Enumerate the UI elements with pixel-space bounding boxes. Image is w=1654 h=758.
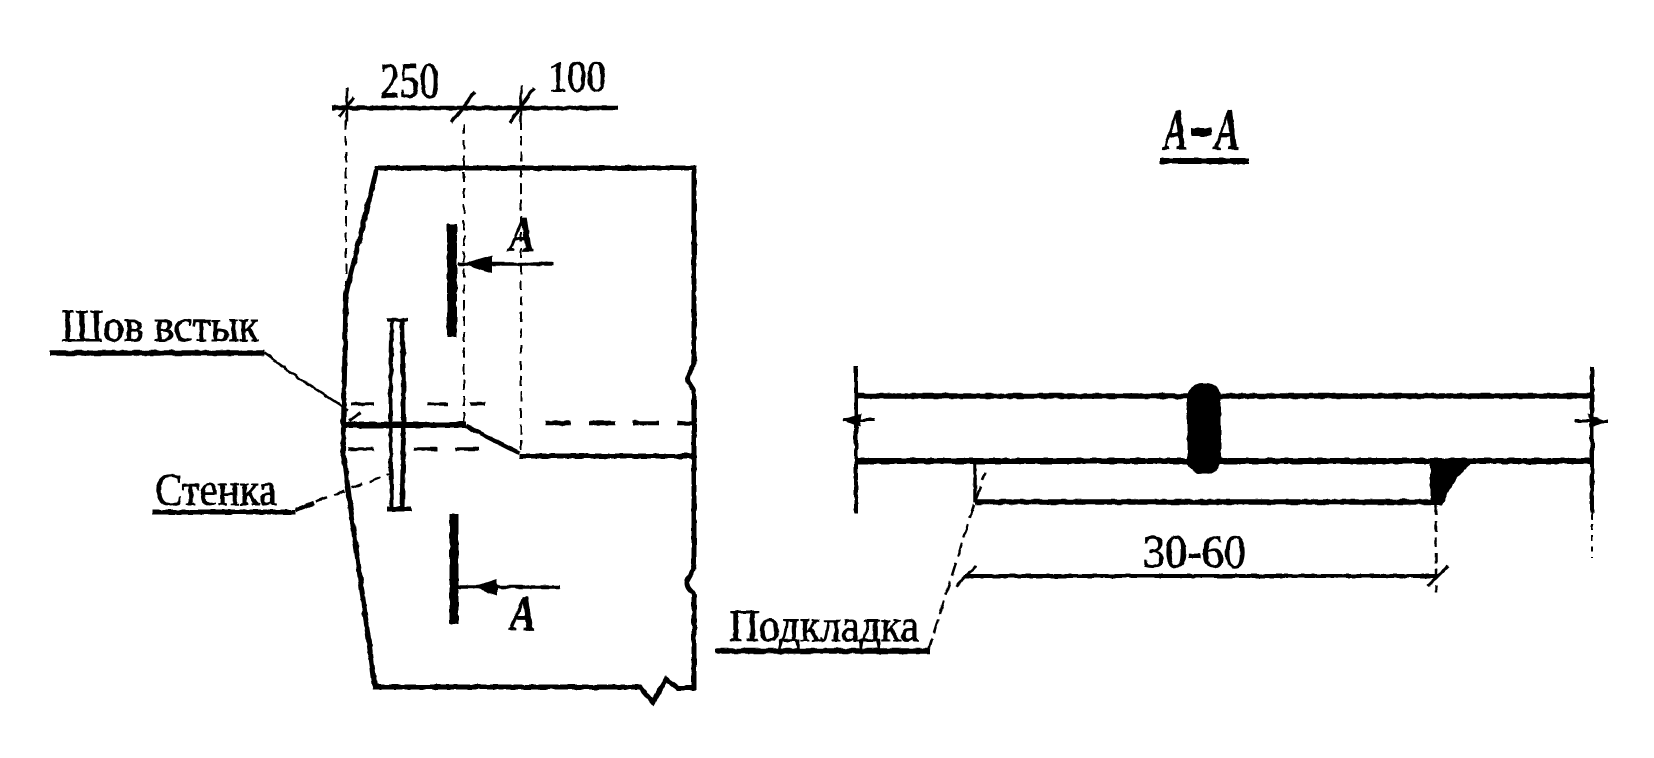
width arrow left (843, 419, 875, 422)
left end line (854, 366, 858, 513)
plate top line (858, 393, 1592, 399)
svg-text:Подкладка: Подкладка (729, 600, 919, 651)
dimension 30-60 (965, 574, 1438, 578)
backing plate bottom (975, 499, 1437, 505)
leader stenka (298, 474, 390, 508)
section cut bar bottom (450, 514, 459, 624)
section cut bar top (447, 224, 457, 337)
dim tick left (x=347) (346, 87, 349, 121)
extension line right of dim (1435, 505, 1438, 592)
section arrow bottom (457, 585, 560, 589)
extension dash line x=521 (520, 120, 522, 453)
section arrow top (458, 262, 554, 266)
width arrow right (1575, 420, 1608, 423)
svg-text:100: 100 (548, 52, 606, 101)
plate bottom line (858, 458, 1592, 464)
extension dash line x=346 (345, 120, 347, 330)
svg-text:30-60: 30-60 (1143, 526, 1246, 578)
fillet weld (black triangle) (1430, 459, 1479, 505)
svg-text:250: 250 (380, 52, 439, 108)
dim tick right (x=522) (520, 86, 523, 124)
hidden dashed line y=449 (348, 447, 374, 451)
svg-text:А: А (508, 585, 536, 641)
svg-text:Шов встык: Шов встык (61, 300, 260, 351)
svg-text:А: А (1213, 97, 1240, 162)
leader podkladka (928, 473, 985, 652)
panel outline (343, 168, 694, 702)
svg-text:А: А (507, 206, 535, 262)
wall (stenka) double line (391, 320, 393, 508)
flange transition diagonal (466, 426, 519, 453)
dimension line top (332, 106, 618, 111)
extension dash line x=464 (463, 124, 465, 428)
svg-text:А: А (1162, 97, 1188, 162)
backing plate left edge (973, 461, 977, 503)
hidden dashed line y=423 right (545, 421, 692, 426)
flange edge solid left (y=425) (341, 422, 466, 428)
flange edge solid right (y=456) (519, 454, 694, 459)
weld bead (black) (1187, 383, 1221, 474)
hidden dashed line y=404 (351, 402, 374, 406)
right end line (1590, 367, 1594, 513)
leader shov vstyk (264, 353, 348, 410)
svg-text:Стенка: Стенка (155, 464, 277, 515)
dim tick middle (x=463) (451, 92, 475, 123)
